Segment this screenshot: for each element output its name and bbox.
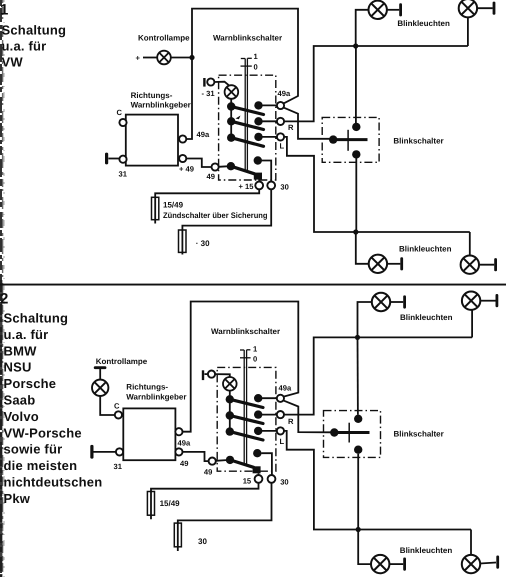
svg-text:31: 31 — [114, 462, 123, 471]
svg-text:u.a. für: u.a. für — [4, 327, 49, 342]
svg-text:Kontrollampe: Kontrollampe — [138, 34, 190, 43]
svg-text:R: R — [288, 123, 294, 132]
svg-text:NSU: NSU — [4, 360, 32, 375]
svg-text:49: 49 — [207, 172, 215, 181]
svg-text:die meisten: die meisten — [4, 458, 78, 473]
svg-text:Schaltung: Schaltung — [4, 311, 69, 326]
svg-text:L: L — [280, 437, 285, 446]
svg-text:0: 0 — [254, 62, 258, 71]
svg-text:49: 49 — [204, 467, 212, 476]
svg-text:BMW: BMW — [4, 343, 38, 358]
svg-text:1: 1 — [253, 345, 258, 354]
svg-text:30: 30 — [198, 537, 207, 546]
svg-text:49a: 49a — [278, 89, 291, 98]
svg-text:15/49: 15/49 — [163, 201, 184, 210]
svg-text:sowie für: sowie für — [4, 442, 63, 457]
svg-text:Blinkleuchten: Blinkleuchten — [400, 546, 453, 555]
svg-text:VW: VW — [2, 54, 24, 69]
svg-text:49a: 49a — [197, 130, 210, 139]
svg-text:49a: 49a — [178, 439, 191, 448]
svg-text:Warnblinkgeber: Warnblinkgeber — [131, 101, 191, 110]
svg-text:VW-Porsche: VW-Porsche — [4, 425, 82, 440]
svg-text:31: 31 — [119, 169, 128, 178]
svg-text:- 31: - 31 — [202, 89, 216, 98]
svg-text:L: L — [280, 142, 285, 151]
svg-text:u.a. für: u.a. für — [2, 39, 47, 54]
svg-text:Blinkleuchten: Blinkleuchten — [399, 245, 452, 254]
svg-text:Richtungs-: Richtungs- — [131, 91, 173, 100]
svg-text:1: 1 — [254, 52, 259, 61]
svg-text:49a: 49a — [279, 384, 292, 393]
svg-text:+ 15: + 15 — [239, 182, 255, 191]
svg-text:Warnblinkschalter: Warnblinkschalter — [211, 327, 280, 336]
svg-text:Blinkleuchten: Blinkleuchten — [400, 313, 453, 322]
svg-text:Schaltung: Schaltung — [2, 22, 67, 37]
svg-text:Pkw: Pkw — [4, 491, 31, 506]
svg-text:Warnblinkgeber: Warnblinkgeber — [126, 393, 186, 402]
svg-text:R: R — [288, 417, 294, 426]
svg-text:C: C — [114, 401, 120, 410]
svg-text:Kontrollampe: Kontrollampe — [96, 357, 148, 366]
svg-text:Zündschalter über Sicherung: Zündschalter über Sicherung — [163, 211, 268, 220]
svg-text:+ 49: + 49 — [179, 164, 194, 173]
svg-text:· 30: · 30 — [196, 239, 210, 248]
svg-text:30: 30 — [280, 478, 288, 487]
svg-text:Saab: Saab — [4, 393, 36, 408]
svg-text:C: C — [117, 108, 123, 117]
svg-text:nichtdeutschen: nichtdeutschen — [4, 475, 103, 490]
svg-text:Blinkschalter: Blinkschalter — [394, 430, 444, 439]
svg-text:Warnblinkschalter: Warnblinkschalter — [213, 34, 282, 43]
svg-text:0: 0 — [253, 355, 257, 364]
svg-text:2: 2 — [0, 291, 8, 308]
svg-text:1: 1 — [0, 2, 8, 19]
svg-text:Richtungs-: Richtungs- — [126, 383, 168, 392]
svg-text:+: + — [136, 54, 141, 63]
svg-text:49: 49 — [180, 459, 188, 468]
svg-text:Blinkschalter: Blinkschalter — [393, 137, 443, 146]
svg-text:Volvo: Volvo — [4, 409, 39, 424]
svg-text:Blinkleuchten: Blinkleuchten — [397, 19, 450, 28]
svg-text:30: 30 — [280, 183, 288, 192]
svg-text:15: 15 — [243, 477, 252, 486]
svg-text:Porsche: Porsche — [4, 376, 57, 391]
svg-text:15/49: 15/49 — [160, 499, 181, 508]
